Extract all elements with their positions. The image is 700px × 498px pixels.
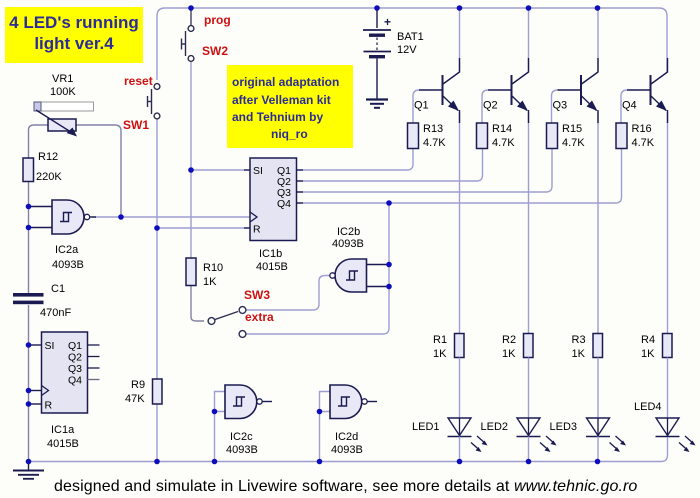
LED2 xyxy=(517,358,557,462)
wire battery drop xyxy=(376,8,378,28)
svg-text:4093B: 4093B xyxy=(332,238,364,250)
svg-text:4.7K: 4.7K xyxy=(492,137,515,149)
svg-text:extra: extra xyxy=(245,310,274,324)
wire IC2c inputs to ground xyxy=(215,392,226,462)
LED4 xyxy=(656,358,696,453)
title box xyxy=(5,7,143,63)
wire R line xyxy=(157,227,250,229)
svg-text:R15: R15 xyxy=(562,123,582,135)
resistor R2 xyxy=(524,334,534,358)
svg-text:Q2: Q2 xyxy=(483,100,498,112)
svg-text:R16: R16 xyxy=(632,123,652,135)
wire pot left lead xyxy=(29,125,49,158)
LED3 xyxy=(586,358,626,462)
svg-text:4015B: 4015B xyxy=(47,438,79,450)
svg-text:12V: 12V xyxy=(397,44,417,56)
transistor Q2 xyxy=(482,8,529,334)
wire IC1b Q3 line xyxy=(297,149,553,193)
wire IC1b Q4 line xyxy=(297,149,622,204)
resistor R13 xyxy=(408,123,419,149)
switch SW2 (prog) xyxy=(182,26,194,62)
wire SI line xyxy=(191,169,250,171)
wire IC2a input stubs xyxy=(29,207,53,228)
svg-text:Q3: Q3 xyxy=(68,363,82,375)
LED1 xyxy=(448,358,488,462)
svg-text:1K: 1K xyxy=(433,348,447,360)
svg-text:Q3: Q3 xyxy=(553,100,568,112)
svg-text:LED4: LED4 xyxy=(634,401,662,413)
node dots xyxy=(26,5,601,464)
svg-text:SW3: SW3 xyxy=(244,288,270,302)
svg-text:original adaptation: original adaptation xyxy=(232,75,339,89)
svg-text:4093B: 4093B xyxy=(52,259,84,271)
wire IC1b Q2 line xyxy=(297,149,483,182)
wire IC1b Q1 line xyxy=(297,149,414,171)
resistor R15 xyxy=(547,123,558,149)
svg-text:LED2: LED2 xyxy=(481,421,509,433)
svg-text:1K: 1K xyxy=(641,348,655,360)
svg-text:prog: prog xyxy=(204,13,231,27)
svg-text:R14: R14 xyxy=(492,123,512,135)
op-amp gate IC2d 4093B xyxy=(330,385,377,419)
shift register IC1a 4015B xyxy=(42,332,100,413)
svg-text:BAT1: BAT1 xyxy=(397,31,424,43)
svg-text:R4: R4 xyxy=(641,334,655,346)
switch SW3 (extra) SPDT xyxy=(208,307,246,338)
svg-text:Q1: Q1 xyxy=(414,100,429,112)
svg-text:1K: 1K xyxy=(572,348,586,360)
svg-text:SI: SI xyxy=(253,165,263,177)
resistor R16 xyxy=(616,123,627,149)
resistor R10 xyxy=(186,258,196,286)
wire SW2 top pin xyxy=(190,8,192,25)
svg-text:after Velleman kit: after Velleman kit xyxy=(232,93,331,107)
svg-text:4.7K: 4.7K xyxy=(423,137,446,149)
wire R10 to SW3 pivot xyxy=(191,286,204,322)
svg-text:4.7K: 4.7K xyxy=(632,137,655,149)
battery BAT1 xyxy=(363,15,391,99)
svg-text:R13: R13 xyxy=(423,123,443,135)
svg-text:1K: 1K xyxy=(203,276,217,288)
svg-text:designed and simulate in Livew: designed and simulate in Livewire softwa… xyxy=(54,478,637,495)
op-amp gate IC2c 4093B xyxy=(225,385,272,419)
svg-text:IC2d: IC2d xyxy=(335,431,358,443)
svg-text:R3: R3 xyxy=(572,334,586,346)
svg-text:IC2b: IC2b xyxy=(337,226,360,238)
svg-text:4 LED's running: 4 LED's running xyxy=(9,13,139,32)
svg-text:Q4: Q4 xyxy=(277,198,291,210)
svg-text:47K: 47K xyxy=(125,393,145,405)
svg-text:IC2c: IC2c xyxy=(230,431,253,443)
wire IC2d inputs to ground xyxy=(320,392,331,462)
wire R9 to bottom rail xyxy=(156,404,158,462)
svg-text:R2: R2 xyxy=(502,334,516,346)
svg-text:IC1b: IC1b xyxy=(259,248,282,260)
svg-text:and Tehnium by: and Tehnium by xyxy=(232,110,323,124)
wire IC2b input stubs xyxy=(367,265,390,287)
svg-text:LED3: LED3 xyxy=(550,421,578,433)
resistor R3 xyxy=(593,334,603,358)
ground below battery xyxy=(366,100,388,108)
wire IC1a clock stub xyxy=(29,390,42,392)
wire IC1a R stub xyxy=(29,403,42,405)
svg-text:1K: 1K xyxy=(502,348,516,360)
wire R node to R9 xyxy=(156,228,158,379)
transistor Q1 xyxy=(413,8,460,334)
svg-text:R: R xyxy=(253,224,261,236)
svg-text:R10: R10 xyxy=(203,262,223,274)
svg-text:Q2: Q2 xyxy=(68,352,82,364)
svg-text:IC2a: IC2a xyxy=(55,244,79,256)
wire top positive rail xyxy=(157,8,667,80)
svg-text:R1: R1 xyxy=(433,334,447,346)
svg-text:SW2: SW2 xyxy=(202,44,228,58)
resistor R14 xyxy=(477,123,488,149)
transistor Q3 xyxy=(552,8,599,334)
resistor R9 xyxy=(153,379,163,404)
svg-text:4093B: 4093B xyxy=(226,444,258,456)
wire IC1a SI stub xyxy=(29,344,42,346)
svg-text:4093B: 4093B xyxy=(331,444,363,456)
op-amp gate IC2a 4093B xyxy=(52,200,96,234)
wire left rail C1 to bottom xyxy=(28,305,30,462)
shift register IC1b 4015B xyxy=(244,158,303,241)
op-amp gate IC2b 4093B (mirrored) xyxy=(330,259,367,292)
svg-text:VR1: VR1 xyxy=(52,73,73,85)
potentiometer VR1 xyxy=(36,110,77,137)
svg-text:LED1: LED1 xyxy=(412,421,440,433)
ground bottom left xyxy=(13,462,44,479)
svg-text:light ver.4: light ver.4 xyxy=(34,34,114,53)
svg-text:C1: C1 xyxy=(51,283,65,295)
svg-text:reset: reset xyxy=(124,74,153,88)
wire SW3 lower contact to Q4 net xyxy=(247,203,390,334)
wire pot right lead to feedback node xyxy=(76,125,121,217)
svg-text:SI: SI xyxy=(45,340,55,352)
svg-text:4015B: 4015B xyxy=(256,261,288,273)
wire SW2 bottom to SI node to R10 xyxy=(190,62,192,258)
transistor Q4 xyxy=(621,58,668,334)
svg-text:R: R xyxy=(45,400,53,412)
svg-text:+: + xyxy=(384,15,391,29)
svg-text:R9: R9 xyxy=(131,379,145,391)
wire SW3 upper contact to IC2b output xyxy=(247,276,331,311)
svg-text:220K: 220K xyxy=(36,171,62,183)
resistor R1 xyxy=(455,334,465,358)
wire clock line IC2a out to IC1b xyxy=(92,216,250,218)
resistor R12 xyxy=(23,158,34,182)
svg-text:SW1: SW1 xyxy=(123,118,149,132)
svg-text:Q1: Q1 xyxy=(68,340,82,352)
resistor R4 xyxy=(663,334,673,358)
svg-text:niq_ro: niq_ro xyxy=(271,127,308,141)
wire SW1 bottom to R node xyxy=(156,119,158,228)
wire left rail R12 to C1 xyxy=(28,182,30,294)
svg-text:470nF: 470nF xyxy=(40,307,71,319)
capacitor C1 xyxy=(13,293,44,304)
note box xyxy=(227,65,353,148)
svg-text:IC1a: IC1a xyxy=(51,424,75,436)
svg-text:Q4: Q4 xyxy=(622,100,637,112)
potentiometer VR1 slider widget xyxy=(34,102,94,111)
wire bottom ground rail xyxy=(29,438,668,462)
switch SW1 (reset) xyxy=(148,84,160,119)
svg-text:R12: R12 xyxy=(38,151,58,163)
svg-text:4.7K: 4.7K xyxy=(562,137,585,149)
svg-text:100K: 100K xyxy=(50,86,76,98)
svg-text:Q4: Q4 xyxy=(68,375,82,387)
